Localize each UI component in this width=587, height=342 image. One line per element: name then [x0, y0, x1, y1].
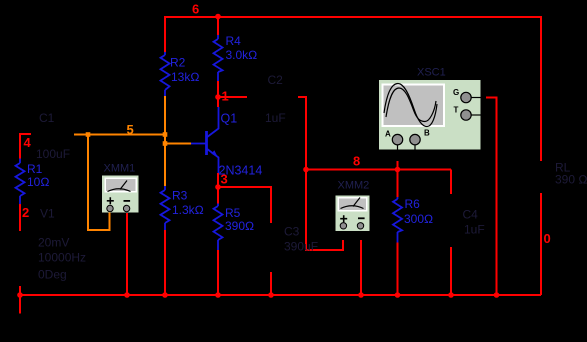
- wire R5 bottom to rail: [217, 250, 219, 295]
- svg-text:R5: R5: [225, 206, 241, 220]
- svg-text:A: A: [385, 130, 391, 139]
- transistor Q1 2N3414: [191, 107, 262, 178]
- svg-text:0Deg: 0Deg: [38, 268, 67, 282]
- svg-text:XMM1: XMM1: [104, 163, 136, 175]
- svg-text:5: 5: [127, 122, 134, 137]
- svg-text:C3: C3: [284, 225, 300, 239]
- junction rail/C4: [448, 292, 454, 298]
- junction rail/XMM1 minus: [124, 292, 130, 298]
- svg-text:8: 8: [353, 154, 360, 169]
- svg-text:C4: C4: [463, 208, 479, 222]
- resistor R2: [161, 52, 200, 96]
- junction node 1: [215, 94, 221, 100]
- multimeter U1 XMM1: [102, 176, 139, 213]
- capacitor C1 (invisible black): [31, 134, 74, 136]
- wire node3 to C3 branch: [218, 187, 271, 223]
- svg-text:3.0kΩ: 3.0kΩ: [226, 48, 258, 62]
- junction node 3: [215, 184, 221, 190]
- svg-text:1uF: 1uF: [265, 111, 286, 125]
- capacitor C3 (invisible black): [270, 223, 272, 272]
- svg-text:10Ω: 10Ω: [27, 175, 50, 189]
- svg-text:XMM2: XMM2: [338, 180, 370, 192]
- junction rail/R3: [162, 292, 168, 298]
- wire node 8 rail: [306, 169, 451, 171]
- svg-text:G: G: [453, 88, 459, 97]
- junction rail/V1: [17, 292, 23, 298]
- wire top rail right drop to RL: [540, 16, 542, 161]
- wire RL bottom to rail: [540, 193, 542, 295]
- resistor R5: [214, 187, 255, 250]
- svg-text:1.3kΩ: 1.3kΩ: [172, 203, 204, 217]
- wire scope G to ground rail: [486, 98, 497, 296]
- junction rail/XMM2 minus: [358, 292, 364, 298]
- source V1 (invisible black): [4, 242, 36, 274]
- wire net 5 vertical R2 to R3 (orange): [164, 96, 166, 186]
- wire bottom ground rail net 0: [20, 294, 541, 296]
- junction net5 at C1 wire / XMM1: [86, 132, 91, 137]
- junction node8 left: [303, 167, 309, 173]
- svg-text:0: 0: [544, 231, 551, 246]
- wire C2 right to XMM2 plus: [298, 97, 343, 250]
- svg-text:390 Ω: 390 Ω: [555, 173, 587, 187]
- junction rail/R5: [215, 292, 221, 298]
- svg-text:C1: C1: [39, 111, 55, 125]
- wire C4 top: [450, 170, 452, 195]
- wire node1 to C2: [218, 96, 247, 98]
- wire net 5 horizontal from C1 (orange): [74, 134, 165, 136]
- wire C3 bottom to rail: [270, 272, 272, 295]
- junction net5 column upper: [163, 132, 168, 137]
- svg-text:B: B: [424, 129, 430, 138]
- svg-text:C2: C2: [268, 73, 284, 87]
- wire C4 bottom to rail: [450, 247, 452, 295]
- junction net5 column lower: [163, 141, 168, 146]
- resistor R4: [214, 16, 258, 81]
- svg-text:Q1: Q1: [221, 112, 238, 126]
- svg-text:R3: R3: [172, 189, 188, 203]
- capacitor C4 (invisible black): [450, 194, 452, 247]
- svg-text:XSC1: XSC1: [417, 67, 446, 79]
- junction top rail / R4: [215, 14, 221, 20]
- svg-text:2: 2: [22, 205, 29, 220]
- wire R3 bottom to ground rail: [164, 230, 166, 295]
- svg-text:6: 6: [192, 2, 199, 17]
- svg-text:100uF: 100uF: [36, 147, 70, 161]
- resistor R6: [393, 170, 433, 243]
- wire ground stub: [19, 295, 21, 314]
- wire XMM1 plus lead (orange): [88, 135, 110, 231]
- svg-text:3: 3: [221, 172, 228, 187]
- svg-text:1uF: 1uF: [464, 223, 485, 237]
- wire XMM2 minus to rail: [360, 240, 362, 295]
- wire node4 vertical to R1: [19, 133, 21, 159]
- svg-text:390uF: 390uF: [284, 240, 318, 254]
- resistor RL (invisible black): [540, 161, 542, 193]
- ground (invisible black): [12, 313, 28, 315]
- wire top rail net 6: [164, 16, 541, 18]
- resistor R1: [16, 159, 50, 205]
- wire R6 bottom to rail: [397, 243, 399, 296]
- wire Q1 emitter to node3: [217, 173, 219, 187]
- wire input node4 stub to C1: [20, 133, 31, 135]
- svg-text:390Ω: 390Ω: [225, 219, 254, 233]
- wire top rail left drop to R2: [164, 16, 166, 52]
- resistor R3: [161, 186, 204, 230]
- svg-text:300Ω: 300Ω: [404, 212, 433, 226]
- junction node8 / R6: [395, 167, 401, 173]
- wire base stub net 5 (orange): [165, 143, 191, 145]
- capacitor C2 (invisible black): [247, 96, 298, 98]
- svg-text:T: T: [454, 106, 459, 115]
- svg-text:10000Hz: 10000Hz: [38, 251, 86, 265]
- junction rail/R6: [395, 292, 401, 298]
- svg-text:20mV: 20mV: [38, 236, 69, 250]
- wire scope probe A: [397, 161, 399, 170]
- oscilloscope XSC1: [379, 80, 481, 150]
- wire V1 bottom to rail: [19, 286, 21, 296]
- svg-text:R2: R2: [170, 56, 186, 70]
- svg-text:4: 4: [24, 135, 32, 150]
- wire Q1 collector to node1: [217, 81, 219, 107]
- svg-text:R4: R4: [226, 34, 242, 48]
- junction rail/C3: [268, 292, 274, 298]
- svg-text:R6: R6: [405, 197, 421, 211]
- svg-text:R1: R1: [27, 162, 43, 176]
- svg-text:V1: V1: [40, 207, 55, 221]
- junction rail/scope G: [494, 292, 500, 298]
- svg-text:13kΩ: 13kΩ: [171, 70, 200, 84]
- wire XMM1 minus to rail: [126, 213, 128, 295]
- wire R1 to V1: [19, 204, 21, 231]
- multimeter U2 XMM2: [336, 196, 370, 232]
